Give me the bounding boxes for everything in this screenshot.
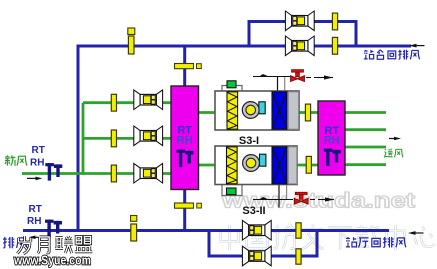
svg-text:S3-I: S3-I — [239, 135, 259, 147]
wire: bottom exhaust header — [23, 229, 389, 232]
wire: AHU S3-I outlet — [299, 111, 318, 114]
AHU U2 eliminator (gray section) — [288, 147, 297, 184]
fan F6 (hall exhaust main branch) — [242, 220, 271, 240]
AHU U2 casing — [215, 146, 297, 185]
AHU U2 cooling coil (blue X) — [272, 147, 287, 184]
wire: fresh air inlet — [22, 172, 171, 175]
coil pipe risers U1 — [277, 77, 279, 91]
filter dP sensing tubes U1 — [222, 86, 242, 100]
svg-text:S3-II: S3-II — [242, 205, 265, 217]
pipe with arrow V2 out — [310, 197, 334, 201]
damper D6 (fresh air row 3) — [111, 165, 116, 182]
damper D3 (lower top branch) — [332, 37, 337, 54]
label 站厅回排风 (hall return/exhaust, blue) — [346, 237, 406, 248]
AHU U1 fan wheel — [259, 102, 265, 114]
air handling unit U2 (S3-II) — [215, 146, 297, 208]
RT/RH mixing box B1 (left) — [171, 86, 199, 190]
fan F5 (fresh air row 3) — [134, 163, 163, 183]
svg-text:RH: RH — [324, 135, 340, 147]
AHU U1 casing — [215, 91, 299, 130]
wire: AHU S3-II outlet — [297, 164, 318, 167]
AHU U1 filter (yellow zigzag) — [227, 92, 238, 129]
AHU U2 filter (yellow zigzag) — [227, 147, 238, 184]
fan F3 (fresh air row 1) — [134, 90, 163, 110]
arrow A1 (fresh air flow, right) — [27, 177, 43, 181]
label 送风 (supply air, green) — [384, 149, 403, 158]
chilled water pipe U1 — [253, 76, 290, 78]
svg-text:RH: RH — [30, 158, 44, 169]
arrow A5 (hall return outlet, bottom right) — [408, 231, 424, 235]
wire: fresh air row 2 — [83, 137, 171, 140]
svg-text:RT: RT — [29, 204, 42, 215]
damper D8 (S3-II outlet) — [306, 156, 311, 173]
arrow A4 (supply air, right) — [389, 137, 401, 141]
valve V1 (S3-I chilled water) — [291, 70, 305, 82]
wire: supply outlet 1 — [345, 111, 386, 114]
filter dP sensor U2 (green box) — [227, 188, 237, 195]
svg-text:RT: RT — [32, 145, 45, 156]
damper D10 (horizontal, below exhaust RT/RH drop) — [175, 203, 202, 208]
damper D2 (upper branch) — [332, 13, 337, 30]
label 排(风) exhaust, blue — [3, 237, 27, 248]
damper D12 (bottom main branch) — [296, 223, 301, 238]
wire: supply outlet 4 — [345, 163, 386, 166]
wire: top return header — [78, 46, 411, 231]
damper D9 (horizontal, above exhaust RT/RH drop) — [175, 64, 202, 69]
pipe with arrow V1 out — [306, 75, 333, 79]
valve V2 (S3-II chilled water) — [294, 192, 308, 204]
wire: RT/RH box bottom to exhaust header — [183, 189, 186, 231]
RT/RH supply box B2 (right) — [318, 101, 345, 175]
air handling unit U1 (S3-I) — [215, 75, 299, 130]
wire: fresh air row 1 — [83, 101, 171, 104]
AHU U2 fan wheel — [260, 154, 266, 166]
damper D5 (fresh air row 2) — [111, 130, 116, 147]
damper D7 (S3-I outlet) — [305, 104, 310, 121]
wire: RT/RH box to AHU S3-I — [199, 111, 216, 114]
svg-text:www.Syue.com: www.Syue.com — [13, 254, 91, 268]
wire: supply outlet 2 — [345, 128, 386, 131]
svg-text:RH: RH — [177, 134, 193, 146]
fan F1 (upper platform-return branch) — [285, 11, 314, 31]
fan F4 (fresh air row 2) — [134, 126, 163, 146]
probe pair P1 (fresh air duct) — [45, 163, 62, 181]
damper D13 (bottom lower branch) — [296, 249, 301, 264]
filter dP sensing tubes U2 — [222, 177, 242, 196]
svg-text:RH: RH — [27, 216, 41, 227]
AHU U1 eliminator (gray section) — [288, 92, 298, 129]
chilled water pipe U2 — [253, 199, 293, 201]
wire: lower parallel branch — [209, 231, 317, 257]
fan F7 (hall exhaust lower branch) — [242, 246, 271, 266]
wire: upper parallel branch — [249, 22, 356, 48]
arrow A2 (exhaust flow, left) — [29, 236, 39, 240]
watermark 中国论文下载中心 — [221, 225, 435, 250]
damper D4 (fresh air row 1) — [111, 94, 116, 111]
probe pair P2 (exhaust duct) — [45, 220, 62, 238]
filter dP sensor U1 (green box) — [227, 81, 236, 88]
arrow A3 (platform return outlet, top right) — [409, 44, 425, 48]
coil pipe risers U2 — [278, 185, 280, 208]
wire: supply outlet 3 — [345, 146, 386, 149]
watermark 岁月联盟 (outlined) — [17, 236, 92, 254]
damper D1 (top header, with actuator square) — [128, 28, 135, 54]
fan F2 (lower platform-return branch) — [285, 36, 314, 56]
label 站台回排风 (platform return/exhaust, blue) — [364, 50, 420, 60]
wire: RT/RH box to AHU S3-II — [199, 164, 216, 167]
label 新风 (fresh air, green) — [5, 155, 27, 165]
wire: drop to RT/RH box top — [183, 46, 186, 87]
damper D11 (bottom header, with actuator square) — [131, 216, 137, 242]
wire: fresh air riser — [82, 103, 85, 174]
AHU U1 cooling coil (blue X) — [272, 92, 287, 129]
